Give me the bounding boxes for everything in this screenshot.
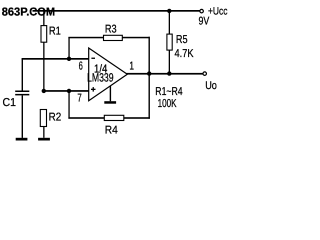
wire R1 bottom stem to node (43, 42, 44, 91)
resistor R4 (104, 115, 124, 120)
wire R5 bottom stem (169, 50, 170, 74)
node pin7/R4 junction (67, 89, 71, 93)
wire R3 loop top left segment (68, 37, 103, 39)
wire R1 top stem (43, 11, 44, 26)
svg-text:R4: R4 (105, 124, 118, 136)
ground below C1 (16, 138, 28, 141)
node output/feedback junction (147, 71, 151, 75)
wire R2 bottom stem (43, 127, 44, 138)
wire non-inverting input (pin 7) horizontal (44, 90, 89, 92)
svg-text:9V: 9V (199, 16, 210, 28)
ground stem below op-amp (110, 86, 111, 101)
op-amp minus sign (91, 58, 95, 59)
svg-text:+Ucc: +Ucc (208, 6, 228, 18)
node R1/R2/pin7 junction (42, 89, 46, 93)
svg-text:R1: R1 (49, 25, 61, 37)
wire R3 loop top right segment (122, 37, 149, 39)
svg-text:863P.COM: 863P.COM (2, 7, 56, 19)
svg-text:1: 1 (129, 60, 134, 72)
node output/R5 junction (167, 71, 171, 75)
svg-text:R2: R2 (49, 112, 62, 124)
ground bar below op-amp (104, 101, 116, 104)
wire output horizontal (127, 73, 203, 75)
svg-text:4.7K: 4.7K (175, 48, 194, 60)
resistor R5 (167, 34, 172, 50)
ground below R2 (38, 138, 50, 141)
resistor R1 (41, 26, 47, 43)
svg-text:6: 6 (79, 61, 83, 73)
wire feedback right vertical (149, 37, 150, 119)
node Vcc/R5 junction (167, 9, 171, 13)
node pin6/R3 junction (67, 57, 71, 61)
wire inverting input (pin 6) horizontal (22, 58, 89, 60)
svg-text:R3: R3 (105, 24, 117, 36)
op-amp plus sign (93, 87, 94, 92)
svg-text:Uo: Uo (205, 80, 217, 92)
wire C1 bottom stem (22, 95, 23, 137)
svg-text:R5: R5 (176, 34, 188, 46)
resistor R2 (40, 110, 46, 127)
wire C1 top stem (22, 59, 23, 91)
svg-text:LM339: LM339 (87, 71, 114, 85)
wire R5 top stem (169, 11, 170, 34)
wire Vcc top rail (33, 10, 200, 12)
wire R3 loop left vertical (68, 37, 69, 59)
resistor R3 (104, 35, 123, 40)
svg-text:R1~R4: R1~R4 (155, 86, 183, 98)
terminal Uo (203, 72, 207, 76)
svg-text:7: 7 (77, 93, 81, 105)
capacitor C1 (15, 91, 29, 93)
wire R4 loop left vertical (68, 92, 69, 119)
terminal +Ucc (200, 9, 204, 13)
wire R4 loop bottom left segment (68, 117, 104, 119)
svg-text:100K: 100K (158, 98, 177, 110)
svg-text:C1: C1 (3, 97, 17, 109)
wire R4 loop bottom right segment (124, 117, 150, 119)
op-amp U1 triangle (89, 48, 128, 101)
